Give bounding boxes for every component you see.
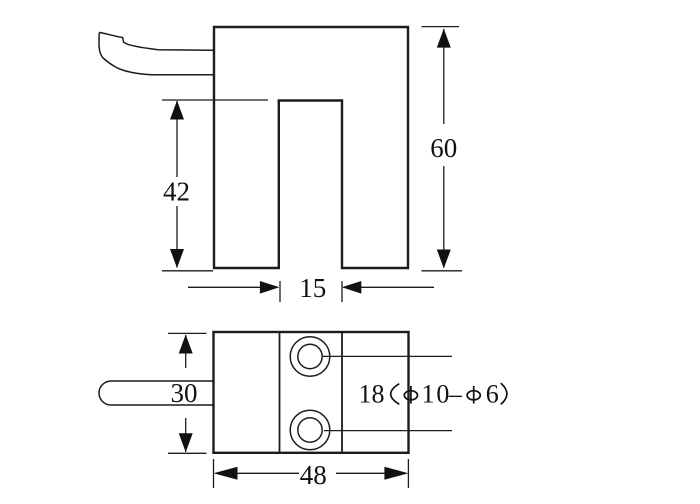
sensor body U-shape (front view) xyxy=(214,27,408,268)
cable (bottom view) xyxy=(99,381,213,405)
dimension 48 arrow left-pointing xyxy=(214,467,238,480)
dimension 42 line lower segment xyxy=(176,206,178,268)
dimension 42 arrow up xyxy=(170,101,184,120)
dimension 42 arrow down xyxy=(170,249,184,268)
svg-text:1810–6: 1810–6 xyxy=(359,380,499,409)
diameter symbol phi 1 xyxy=(404,391,417,400)
svg-text:42: 42 xyxy=(163,177,190,207)
dimension 15 line left xyxy=(188,286,261,288)
dimension 30 extension line top xyxy=(168,332,207,334)
dimension 42 extension line top xyxy=(162,99,268,101)
cable (front view) xyxy=(99,33,214,75)
diameter symbol phi 2 xyxy=(467,391,480,400)
leader line from bottom hole xyxy=(324,430,452,432)
dimension 30 extension line bottom xyxy=(168,452,207,454)
dimension 15 extension tick right xyxy=(341,281,343,302)
dimension 30 arrow up xyxy=(179,335,193,354)
dimension 48 arrow right-pointing xyxy=(384,467,408,480)
mounting hole bottom inner circle xyxy=(298,418,322,442)
dimension 15 arrow right-pointing xyxy=(260,281,280,294)
mounting hole top outer circle xyxy=(290,337,330,377)
dimension 60 extension line bottom xyxy=(422,270,463,272)
dimension 15 line right xyxy=(361,286,434,288)
dimension 15 arrow left-pointing xyxy=(342,281,362,294)
leader line from top hole xyxy=(323,355,452,357)
dimension 48 extension tick left xyxy=(213,459,215,488)
dimension 48 line right segment xyxy=(336,472,386,474)
dimension 48 extension tick right xyxy=(407,459,409,488)
dimension 30 line lower segment xyxy=(185,418,187,452)
mounting hole top inner circle xyxy=(298,344,322,368)
svg-text:48: 48 xyxy=(300,460,327,490)
dimension 42 line upper segment xyxy=(176,101,178,177)
closing parenthesis xyxy=(501,383,507,404)
dimension 60 arrow down xyxy=(437,250,451,269)
dimension 15 extension tick left xyxy=(279,281,281,302)
opening parenthesis xyxy=(391,384,400,405)
dimension 60 extension line top xyxy=(422,26,460,28)
sensor body rectangle (bottom view) xyxy=(214,332,409,453)
dimension 60 arrow up xyxy=(437,29,451,48)
svg-text:60: 60 xyxy=(430,133,457,163)
body divider line left (bottom view) xyxy=(279,332,281,453)
dimension 42 extension line bottom xyxy=(162,270,213,272)
mounting hole bottom outer circle xyxy=(290,410,330,450)
dimension 30 line upper segment xyxy=(185,335,187,368)
svg-text:30: 30 xyxy=(171,378,198,408)
dimension 48 line left segment xyxy=(236,472,299,474)
body divider line right (bottom view) xyxy=(341,332,343,453)
dimension 60 line lower segment xyxy=(443,166,445,268)
dimension 30 arrow down xyxy=(179,433,193,452)
svg-text:15: 15 xyxy=(299,273,326,303)
dimension 60 line upper segment xyxy=(443,29,445,124)
